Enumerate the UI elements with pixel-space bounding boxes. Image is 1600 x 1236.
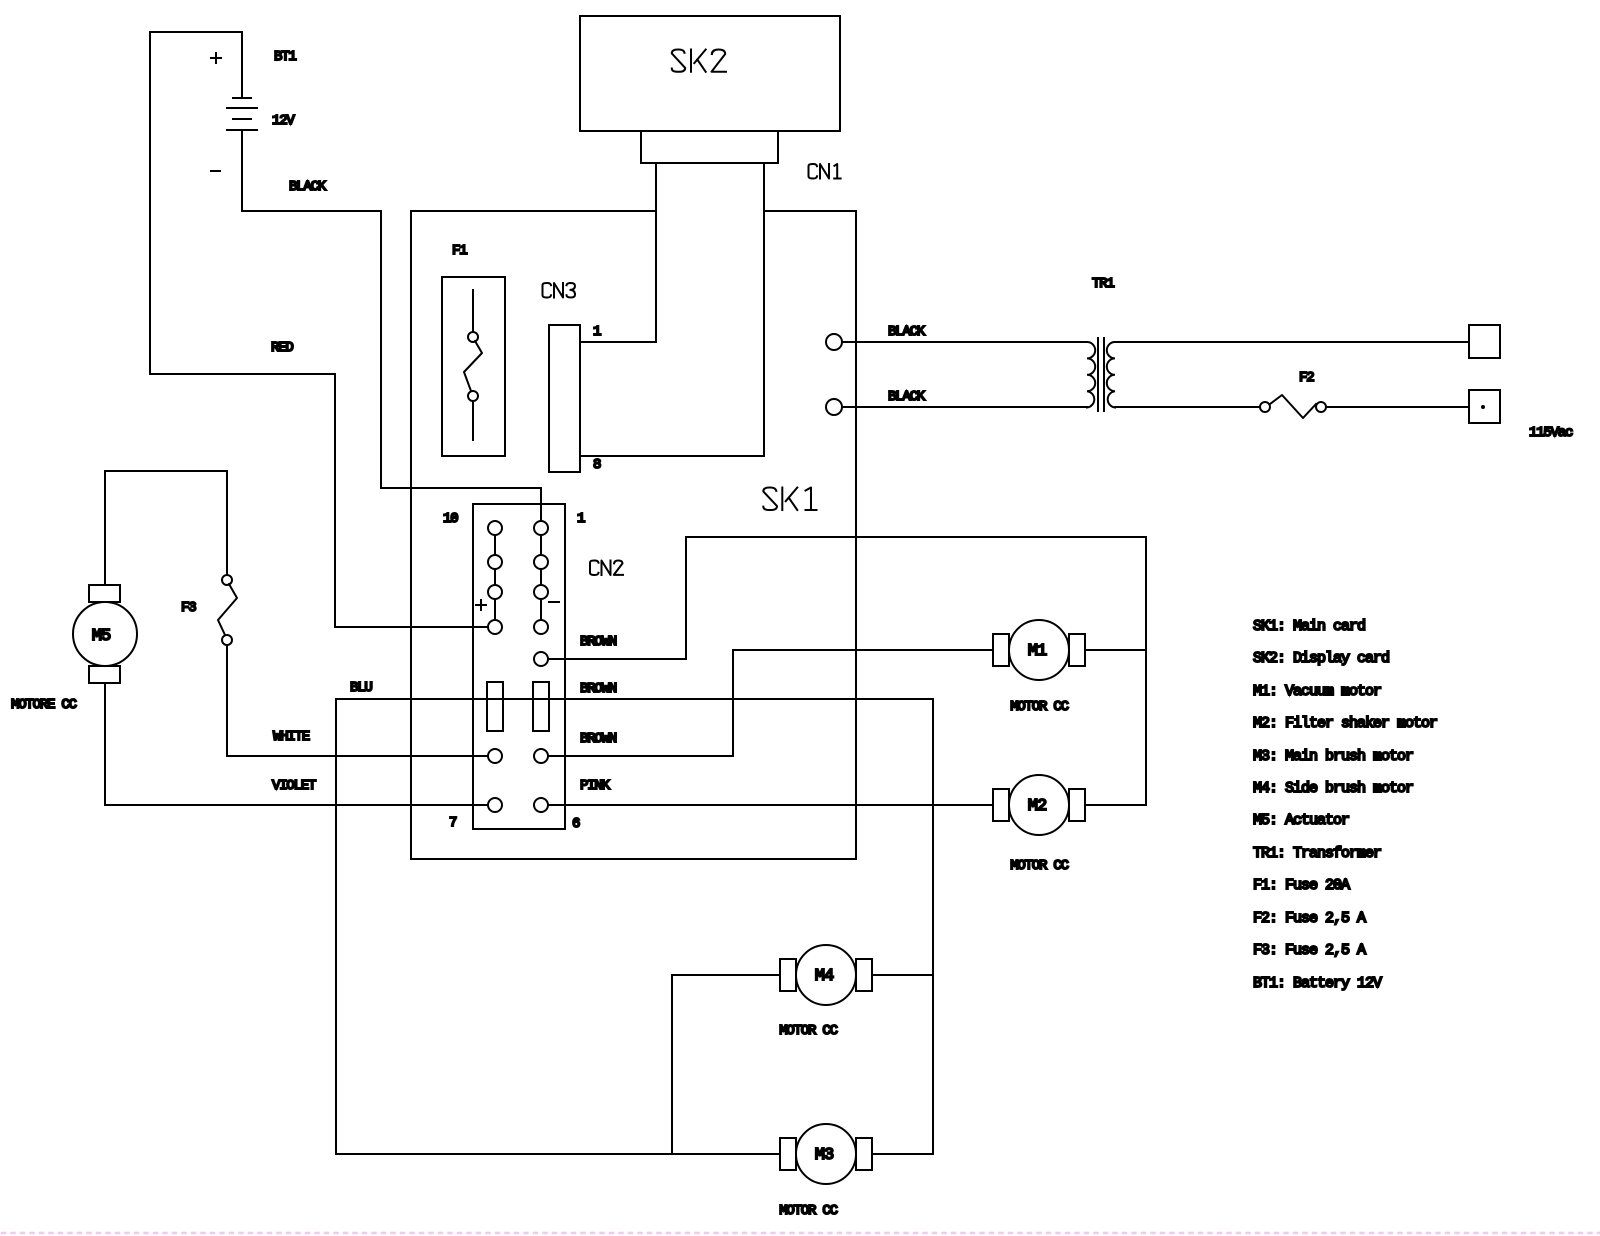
wire RED from battery loop to CN2 pin +: [150, 374, 488, 627]
wire WHITE from fuse F3 to CN2: [227, 645, 488, 756]
connector CN2 box: [473, 504, 565, 829]
svg-text:M2: Filter shaker motor: M2: Filter shaker motor: [1253, 715, 1437, 732]
connector CN1: [641, 131, 778, 456]
svg-text:BLACK: BLACK: [289, 179, 327, 195]
wire BLACK to transformer bottom: [842, 406, 1087, 408]
label CN3: [543, 283, 576, 298]
svg-text:M1: Vacuum motor: M1: Vacuum motor: [1253, 683, 1381, 700]
wire PINK from CN2 to motor M2: [548, 804, 993, 806]
svg-text:F1: Fuse 20A: F1: Fuse 20A: [1253, 877, 1350, 894]
connector CN3: [549, 325, 580, 472]
legend: [1253, 618, 1437, 992]
svg-text:6: 6: [572, 816, 580, 832]
side brush motor M4: [780, 945, 872, 1005]
label + of battery: [211, 53, 221, 63]
fuse F1 symbol: [464, 290, 482, 440]
wire transformer secondary bottom to fuse F2: [1115, 406, 1260, 408]
wire M2 right to rail: [1085, 804, 1146, 806]
svg-text:PINK: PINK: [580, 778, 611, 794]
fuse F2: [1260, 395, 1326, 418]
svg-text:BT1: BT1: [274, 49, 296, 65]
svg-text:F3: F3: [181, 600, 196, 616]
svg-text:M3: M3: [815, 1146, 834, 1165]
svg-text:M1: M1: [1028, 642, 1047, 661]
actuator M5: [73, 585, 137, 683]
svg-text:M2: M2: [1028, 797, 1046, 816]
right rail wire: [1145, 537, 1147, 805]
fuse F1 box: [442, 277, 505, 456]
wire BLU BROWN 2 through CN2 slots: [336, 698, 933, 700]
svg-text:BROWN: BROWN: [580, 681, 617, 697]
svg-text:115Vac: 115Vac: [1529, 425, 1573, 441]
transformer TR1: [1087, 338, 1115, 411]
svg-text:BLACK: BLACK: [888, 389, 926, 405]
terminal 115Vac bottom: [1469, 390, 1500, 423]
battery BT1 plates: [227, 98, 257, 130]
svg-text:TR1: Transformer: TR1: Transformer: [1253, 845, 1381, 862]
CN2 right pin chain: [534, 521, 548, 634]
filter shaker motor M2: [993, 775, 1085, 835]
svg-text:BLACK: BLACK: [888, 324, 926, 340]
svg-text:MOTOR CC: MOTOR CC: [1010, 858, 1068, 874]
label + of CN2: [476, 600, 486, 610]
wire transformer secondary top to 115Vac: [1115, 341, 1469, 343]
main card SK1 box: [411, 211, 856, 859]
CN2 pin VIOLET: [488, 798, 502, 812]
page edge dotted line: [2, 1232, 1600, 1235]
svg-text:F2: Fuse 2,5 A: F2: Fuse 2,5 A: [1253, 910, 1366, 927]
terminal of SK1 primary top: [826, 334, 842, 350]
wire M1 right to rail: [1085, 649, 1146, 651]
wire M3 right to brown rail: [872, 1153, 933, 1155]
wire VIOLET from actuator M5 to CN2: [105, 683, 488, 805]
CN2 pin BROWN single: [534, 652, 548, 666]
terminal 115Vac top: [1469, 325, 1500, 358]
svg-text:WHITE: WHITE: [273, 729, 310, 745]
svg-text:MOTOR CC: MOTOR CC: [779, 1203, 837, 1219]
svg-text:7: 7: [449, 815, 457, 831]
svg-text:12V: 12V: [272, 113, 295, 129]
svg-text:BT1: Battery 12V: BT1: Battery 12V: [1253, 975, 1382, 992]
svg-text:F3: Fuse 2,5 A: F3: Fuse 2,5 A: [1253, 942, 1366, 959]
wire M4 left down to BLU rail: [672, 975, 780, 1154]
CN2 pin WHITE: [488, 749, 502, 763]
wire BROWN 1 from CN2 to motors right rail: [548, 537, 1146, 659]
svg-text:SK1: Main card: SK1: Main card: [1253, 618, 1365, 635]
svg-text:1: 1: [593, 324, 601, 340]
wire BLACK to transformer top: [842, 341, 1087, 343]
terminal of SK1 primary bottom: [826, 399, 842, 415]
svg-text:MOTOR CC: MOTOR CC: [1010, 699, 1068, 715]
wire M4 right to brown rail: [872, 974, 933, 976]
wire fuse F2 to 115Vac: [1326, 406, 1469, 408]
svg-text:TR1: TR1: [1092, 276, 1114, 292]
svg-text:M5: Actuator: M5: Actuator: [1253, 812, 1349, 829]
svg-text:BROWN: BROWN: [580, 731, 617, 747]
wire BROWN 3 from CN2 to motor M1: [548, 650, 993, 756]
svg-text:BROWN: BROWN: [580, 634, 617, 650]
CN2 pin PINK: [534, 798, 548, 812]
svg-text:RED: RED: [271, 340, 293, 356]
display card SK2 box: [580, 16, 840, 131]
wire CN3 pin 1 to CN1: [580, 341, 656, 343]
label SK1: [763, 488, 816, 511]
svg-text:MOTOR CC: MOTOR CC: [779, 1023, 837, 1039]
label CN2: [590, 561, 623, 576]
svg-text:VIOLET: VIOLET: [272, 778, 316, 794]
svg-text:MOTORE CC: MOTORE CC: [11, 697, 77, 713]
svg-text:8: 8: [593, 457, 601, 473]
CN2 left pin chain: [488, 521, 502, 634]
CN2 slot right: [533, 682, 549, 731]
fuse F3: [218, 575, 237, 645]
svg-text:M5: M5: [92, 627, 111, 646]
svg-text:F2: F2: [1299, 370, 1314, 386]
svg-text:1: 1: [577, 511, 585, 527]
label - of CN2: [549, 601, 559, 603]
label - of battery: [211, 170, 220, 172]
svg-text:M4: M4: [815, 967, 834, 986]
svg-text:SK2: Display card: SK2: Display card: [1253, 650, 1389, 667]
wire BLACK from battery negative to CN2 pin 1: [242, 130, 541, 521]
label CN1: [809, 164, 841, 179]
svg-text:M4: Side brush motor: M4: Side brush motor: [1253, 780, 1413, 797]
vacuum motor M1: [993, 620, 1085, 680]
dot in bottom terminal: [1481, 405, 1485, 409]
CN2 pin BROWN row3: [534, 749, 548, 763]
svg-text:10: 10: [443, 511, 458, 527]
wire CN3 pin 8 to CN1: [580, 455, 764, 457]
svg-text:BLU: BLU: [350, 680, 372, 696]
svg-text:M3: Main brush motor: M3: Main brush motor: [1253, 748, 1413, 765]
main brush motor M3: [780, 1124, 872, 1184]
CN2 slot left: [487, 682, 503, 731]
wire BLU down to motor M3: [336, 699, 780, 1154]
wire loop M5 to F3: [105, 471, 227, 585]
svg-text:F1: F1: [452, 243, 467, 259]
battery BT1 positive lead and left loop wire: [150, 32, 242, 374]
brown rail down: [932, 699, 934, 1154]
label SK2: [672, 50, 726, 72]
